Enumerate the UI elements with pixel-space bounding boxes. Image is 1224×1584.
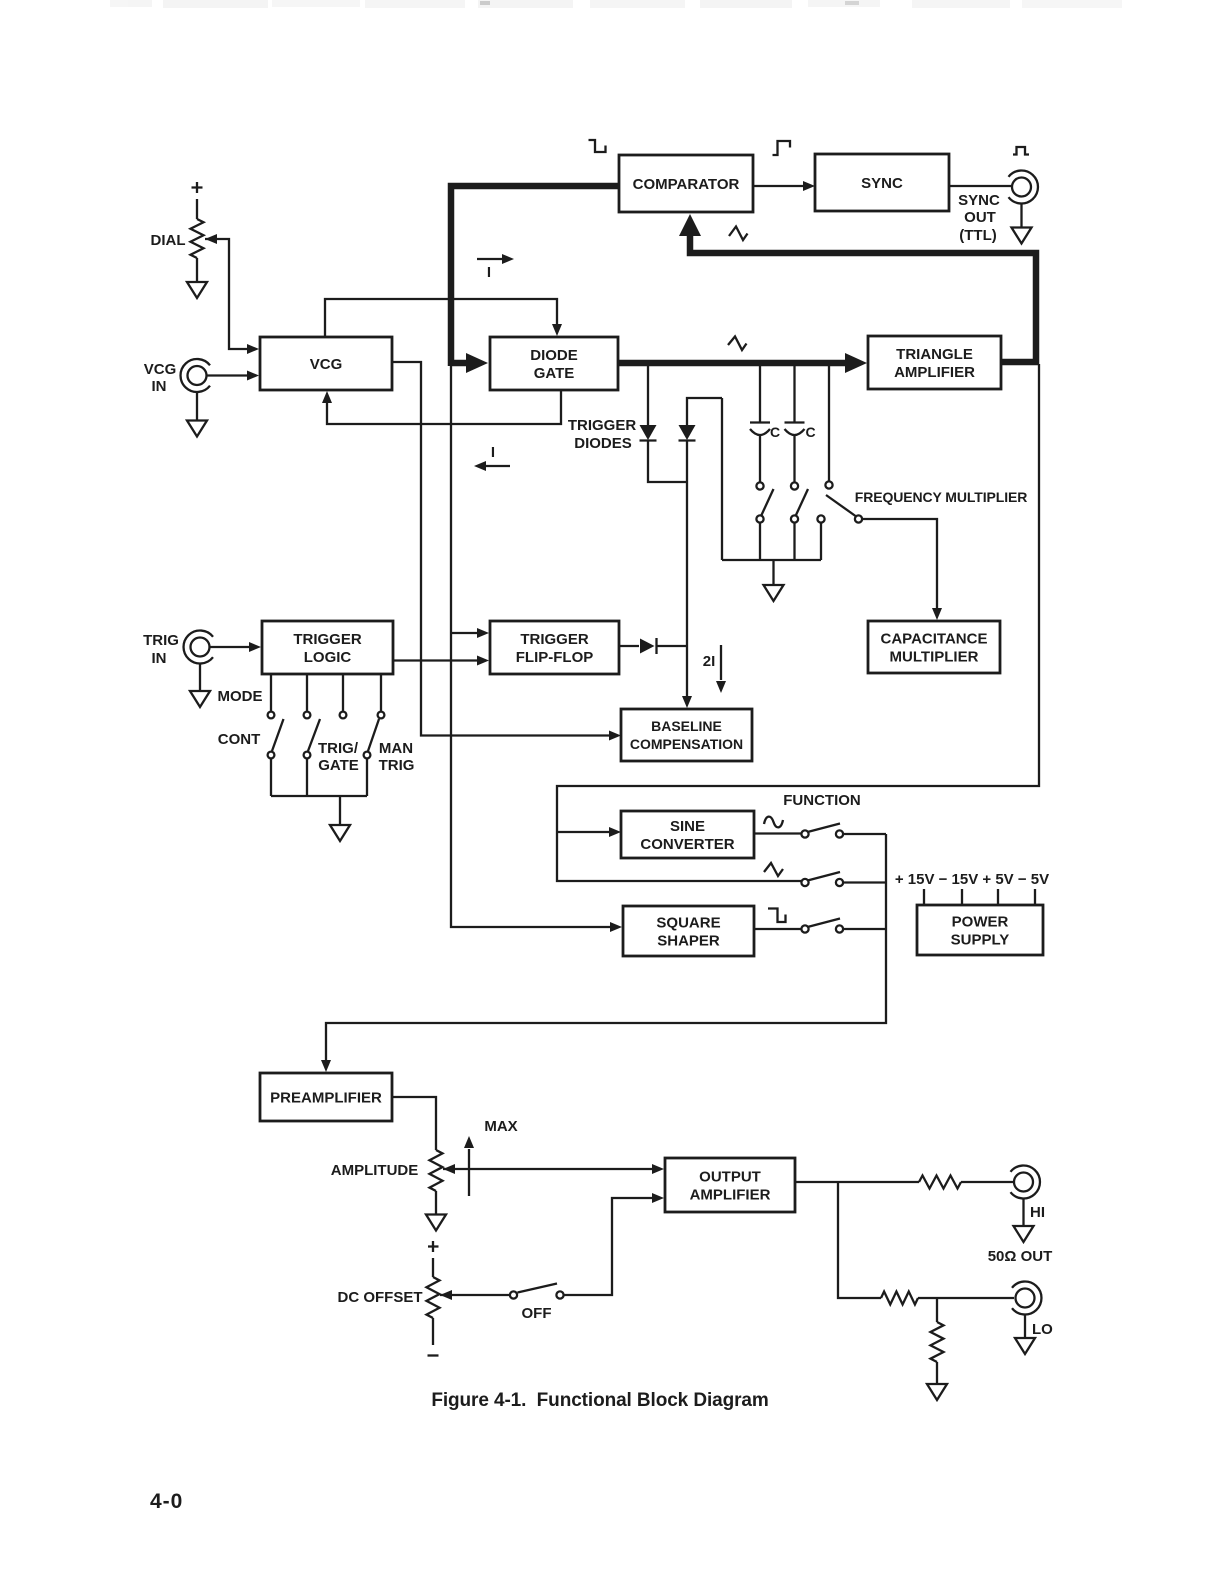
connector LO bbox=[1016, 1289, 1035, 1308]
svg-text:LOGIC: LOGIC bbox=[304, 649, 352, 666]
wire thick arrow into comparator bottom bbox=[679, 214, 701, 236]
wire shunt resistor to ground bbox=[936, 1362, 938, 1384]
wire triangle wave net to function switches bbox=[557, 364, 1039, 881]
wire S3 to capacitance multiplier bbox=[863, 519, 943, 620]
connector VCG IN bbox=[188, 366, 207, 385]
svg-text:TRIGGER: TRIGGER bbox=[568, 417, 637, 434]
ground below DIAL bbox=[187, 282, 207, 298]
wire D1 to D2 junction bbox=[648, 440, 687, 482]
svg-text:DC OFFSET: DC OFFSET bbox=[338, 1289, 423, 1306]
label I with left arrow bbox=[474, 444, 510, 471]
svg-text:(TTL): (TTL) bbox=[959, 227, 996, 244]
wire VCG IN to VCG bbox=[207, 371, 259, 381]
resistor shunt to ground bbox=[931, 1322, 944, 1362]
ground below amplitude pot bbox=[426, 1215, 446, 1231]
glyph triangle wave function bbox=[764, 863, 783, 876]
svg-text:SQUARE: SQUARE bbox=[656, 914, 720, 931]
svg-text:I: I bbox=[487, 264, 491, 281]
svg-text:VCG: VCG bbox=[310, 356, 343, 373]
wire branch to trigger flip-flop upper input bbox=[451, 628, 489, 638]
connector HI bbox=[1014, 1173, 1033, 1192]
arrow MAX bbox=[464, 1136, 474, 1196]
svg-text:SYNC: SYNC bbox=[861, 175, 903, 192]
svg-text:CONT: CONT bbox=[218, 731, 261, 748]
wire triangle amplifier output feedback (thick) bbox=[690, 234, 1036, 362]
wire into capacitor C1 bbox=[759, 366, 761, 422]
node mode contact 3 bbox=[340, 712, 347, 719]
block SYNC bbox=[815, 154, 949, 211]
svg-text:+ 15V − 15V + 5V − 5V: + 15V − 15V + 5V − 5V bbox=[895, 871, 1049, 888]
wire function bus to preamplifier bbox=[321, 834, 886, 1072]
wire switch bottom bus bbox=[722, 559, 821, 561]
block BASELINE COMPENSATION bbox=[621, 709, 752, 761]
wire VCG output to baseline compensation bbox=[392, 362, 621, 741]
node + above DC OFFSET bbox=[428, 1241, 439, 1252]
wire TRIG IN to trigger logic bbox=[210, 642, 261, 652]
wire into switch S3 bbox=[828, 366, 830, 481]
svg-text:TRIGGER: TRIGGER bbox=[293, 631, 362, 648]
node + supply above DIAL bbox=[192, 182, 203, 219]
wire square node to square shaper bbox=[451, 364, 622, 932]
wire OFF switch to output amplifier bbox=[564, 1193, 664, 1295]
block SINE CONVERTER bbox=[621, 811, 754, 858]
svg-text:TRIANGLE: TRIANGLE bbox=[896, 346, 973, 363]
svg-text:MULTIPLIER: MULTIPLIER bbox=[890, 648, 979, 665]
block DIODE GATE bbox=[490, 337, 618, 390]
wire capacitor return bus bbox=[721, 398, 723, 560]
diode trigger flip-flop output bbox=[619, 638, 687, 654]
resistor DIAL bbox=[191, 219, 204, 258]
wire junction down to LO branch bbox=[838, 1182, 881, 1298]
wire into capacitor C2 bbox=[793, 366, 795, 422]
capacitor C1 bbox=[750, 423, 770, 483]
svg-text:AMPLITUDE: AMPLITUDE bbox=[331, 1162, 419, 1179]
connector SYNC OUT bbox=[1012, 178, 1031, 197]
svg-text:SINE: SINE bbox=[670, 818, 705, 835]
wire diode gate bottom to VCG feedback bbox=[322, 390, 561, 424]
switch S3 frequency multiplier bbox=[817, 481, 862, 560]
connector TRIG IN bbox=[191, 638, 210, 657]
svg-text:COMPENSATION: COMPENSATION bbox=[630, 736, 743, 752]
resistor DC OFFSET pot bbox=[427, 1277, 440, 1318]
label I with right arrow bbox=[477, 254, 514, 281]
glyph triangle wave main line bbox=[728, 337, 747, 351]
wire sync to sync out bbox=[949, 185, 1012, 187]
svg-text:DIODES: DIODES bbox=[574, 435, 632, 452]
wire TRIG IN shield bbox=[199, 664, 201, 691]
glyph square wave comparator output bbox=[773, 141, 791, 155]
switch MAN TRIG bbox=[364, 712, 385, 759]
glyph triangle wave feedback bbox=[729, 227, 748, 241]
wire LO node to shunt resistor bbox=[936, 1298, 938, 1322]
wire comparator to sync bbox=[753, 181, 815, 191]
wire LO shield bbox=[1024, 1315, 1026, 1338]
switch function triangle bbox=[801, 872, 886, 886]
svg-text:GATE: GATE bbox=[534, 365, 575, 382]
wire mode switch stems bbox=[271, 674, 381, 711]
svg-text:FLIP-FLOP: FLIP-FLOP bbox=[516, 649, 594, 666]
switch CONT bbox=[268, 712, 284, 759]
wire dc offset wiper to OFF switch bbox=[440, 1290, 509, 1300]
wire D2 down to baseline compensation bbox=[682, 440, 692, 708]
svg-text:HI: HI bbox=[1030, 1204, 1045, 1221]
svg-text:AMPLIFIER: AMPLIFIER bbox=[690, 1186, 771, 1203]
wire resistor to HI connector bbox=[961, 1181, 1013, 1183]
svg-text:GATE: GATE bbox=[318, 757, 359, 774]
node - below DC OFFSET bbox=[428, 1354, 439, 1356]
wire DIAL bottom bbox=[196, 258, 198, 282]
wire diode gate to triangle amplifier (thick) with arrow bbox=[618, 353, 867, 373]
svg-text:FREQUENCY MULTIPLIER: FREQUENCY MULTIPLIER bbox=[855, 489, 1028, 505]
block POWER SUPPLY bbox=[917, 905, 1043, 955]
ground below HI bbox=[1014, 1226, 1034, 1242]
wire thick into diode gate with arrow bbox=[451, 353, 488, 373]
wire preamplifier to amplitude pot bbox=[392, 1097, 436, 1150]
block TRIANGLE AMPLIFIER bbox=[868, 336, 1001, 389]
switch function square bbox=[754, 919, 886, 933]
wire amplitude pot to ground bbox=[435, 1191, 437, 1214]
wire resistor to LO connector bbox=[918, 1297, 1014, 1299]
svg-text:SUPPLY: SUPPLY bbox=[951, 931, 1010, 948]
wire HI shield bbox=[1022, 1199, 1024, 1226]
wire mode switches to ground bbox=[271, 759, 367, 826]
svg-text:TRIG: TRIG bbox=[379, 757, 415, 774]
block COMPARATOR bbox=[619, 155, 753, 212]
svg-text:IN: IN bbox=[152, 378, 167, 395]
switch TRIG/GATE bbox=[304, 712, 320, 759]
wire VCG top to diode gate top bbox=[325, 299, 562, 337]
wire DIAL wiper to VCG bbox=[205, 234, 259, 354]
glyph square wave function bbox=[768, 909, 786, 923]
resistor AMPLITUDE pot bbox=[430, 1150, 443, 1191]
block CAPACITANCE MULTIPLIER bbox=[868, 621, 1000, 673]
block SQUARE SHAPER bbox=[623, 906, 754, 956]
wire into trigger diode D1 bbox=[647, 366, 649, 425]
svg-text:C: C bbox=[770, 424, 780, 440]
svg-text:MAN: MAN bbox=[379, 740, 413, 757]
wire comparator input (thick net from square-wave node) bbox=[451, 186, 618, 366]
ground below mode switches bbox=[330, 825, 350, 841]
ground below frequency multiplier switches bbox=[764, 585, 784, 601]
svg-text:TRIG/: TRIG/ bbox=[318, 740, 359, 757]
svg-text:LO: LO bbox=[1032, 1321, 1053, 1338]
svg-text:AMPLIFIER: AMPLIFIER bbox=[894, 364, 975, 381]
svg-text:SHAPER: SHAPER bbox=[657, 932, 720, 949]
svg-text:FUNCTION: FUNCTION bbox=[783, 792, 861, 809]
block PREAMPLIFIER bbox=[260, 1073, 392, 1121]
arrow 2I current bbox=[716, 645, 726, 693]
svg-text:POWER: POWER bbox=[952, 913, 1009, 930]
svg-text:COMPARATOR: COMPARATOR bbox=[633, 176, 740, 193]
svg-text:IN: IN bbox=[152, 650, 167, 667]
svg-text:4-0: 4-0 bbox=[150, 1490, 183, 1513]
ground below VCG IN bbox=[187, 421, 207, 437]
svg-text:MAX: MAX bbox=[484, 1118, 517, 1135]
svg-text:I: I bbox=[491, 444, 495, 461]
wire output amplifier to HI resistor bbox=[795, 1181, 919, 1183]
wire D2 top link bbox=[687, 398, 722, 425]
ground below LO bbox=[1015, 1338, 1035, 1354]
svg-text:OUTPUT: OUTPUT bbox=[699, 1168, 761, 1185]
switch S2 frequency multiplier bbox=[791, 482, 808, 560]
switch OFF bbox=[510, 1284, 564, 1299]
svg-text:OUT: OUT bbox=[964, 209, 996, 226]
svg-text:VCG: VCG bbox=[144, 361, 177, 378]
wire dc offset top bbox=[432, 1258, 434, 1277]
svg-text:PREAMPLIFIER: PREAMPLIFIER bbox=[270, 1089, 382, 1106]
svg-text:CONVERTER: CONVERTER bbox=[640, 836, 734, 853]
switch function sine bbox=[754, 824, 886, 838]
glyph pulse above sync out bbox=[1013, 147, 1029, 155]
svg-text:MODE: MODE bbox=[218, 688, 263, 705]
svg-text:Figure 4-1. Functional Block: Figure 4-1. Functional Block Diagram bbox=[431, 1390, 768, 1411]
wire branch into sine converter bbox=[557, 827, 621, 837]
wire trigger logic to trigger flip-flop bbox=[393, 656, 489, 666]
svg-text:BASELINE: BASELINE bbox=[651, 718, 722, 734]
svg-text:C: C bbox=[805, 424, 815, 440]
switch S1 frequency multiplier bbox=[756, 482, 773, 560]
ground below shunt resistor bbox=[927, 1384, 947, 1400]
svg-text:TRIG: TRIG bbox=[143, 632, 179, 649]
wire power supply stems bbox=[924, 889, 1035, 905]
svg-text:OFF: OFF bbox=[522, 1305, 552, 1322]
svg-text:CAPACITANCE: CAPACITANCE bbox=[881, 630, 988, 647]
ground below TRIG IN bbox=[190, 691, 210, 707]
wire VCG IN shield to ground bbox=[196, 392, 198, 420]
trigger diode D1 bbox=[640, 425, 657, 441]
block OUTPUT AMPLIFIER bbox=[665, 1158, 795, 1212]
wire dc offset bottom bbox=[432, 1318, 434, 1345]
glyph square wave above comparator input bbox=[589, 140, 606, 152]
svg-text:SYNC: SYNC bbox=[958, 192, 1000, 209]
block TRIGGER LOGIC bbox=[262, 621, 393, 674]
resistor series HI bbox=[919, 1176, 961, 1189]
capacitor C2 bbox=[785, 423, 805, 483]
wire sync out shield bbox=[1020, 204, 1022, 227]
svg-text:DIODE: DIODE bbox=[530, 347, 578, 364]
wire bus to ground bbox=[772, 560, 774, 585]
wire amplitude wiper to output amplifier bbox=[443, 1164, 664, 1174]
ground below sync out bbox=[1012, 228, 1032, 244]
svg-text:TRIGGER: TRIGGER bbox=[520, 631, 589, 648]
glyph sine wave bbox=[764, 817, 783, 828]
svg-text:2I: 2I bbox=[703, 653, 716, 670]
resistor series LO bbox=[881, 1292, 918, 1305]
svg-text:50Ω OUT: 50Ω OUT bbox=[988, 1248, 1053, 1265]
trigger diode D2 bbox=[679, 425, 696, 441]
svg-text:DIAL: DIAL bbox=[151, 232, 186, 249]
block TRIGGER FLIP-FLOP bbox=[490, 621, 619, 674]
block VCG bbox=[260, 337, 392, 390]
